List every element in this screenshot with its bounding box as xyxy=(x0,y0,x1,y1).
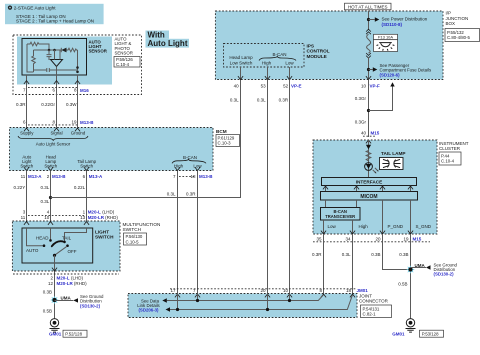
svg-text:10: 10 xyxy=(361,84,367,89)
note header box 2-STAGE Auto Light xyxy=(5,4,104,24)
sensor circuit: left rail wire xyxy=(27,44,34,72)
svg-text:35: 35 xyxy=(316,236,322,241)
node to passenger fuse details xyxy=(367,68,370,71)
brace under Supply Signal Ground xyxy=(18,136,88,140)
svg-text:SWITCH: SWITCH xyxy=(123,227,142,232)
micom ground wires xyxy=(383,200,411,234)
svg-text:0.3B: 0.3B xyxy=(43,289,52,294)
svg-text:0.3B: 0.3B xyxy=(371,252,380,257)
auto light & photo sensor outer dashed box xyxy=(13,35,142,95)
svg-text:UMA: UMA xyxy=(61,296,72,301)
junction node on head lamp wire xyxy=(49,196,52,199)
svg-text:0.22Gr: 0.22Gr xyxy=(41,102,55,107)
light switch top pin chevrons xyxy=(24,222,89,225)
IPS B-CAN Low long wire xyxy=(289,80,291,294)
svg-text:P.54/131: P.54/131 xyxy=(363,306,380,311)
brace over High Low (BCM) xyxy=(172,159,206,163)
svg-text:0.3W: 0.3W xyxy=(66,102,77,107)
node to power distribution xyxy=(367,18,370,21)
fuse F13 10A xyxy=(366,29,397,58)
wire supply from sensor xyxy=(26,75,28,128)
B-CAN TRANSCEIVER block xyxy=(321,208,361,221)
photodiode D1 xyxy=(60,48,62,52)
svg-text:M13-B: M13-B xyxy=(52,174,66,179)
svg-text:(LHD): (LHD) xyxy=(71,276,84,281)
wire 0.22Y auto light switch xyxy=(26,171,28,229)
svg-text:Low Switch: Low Switch xyxy=(230,60,253,65)
IPS bottom pin chevrons xyxy=(238,76,292,79)
transceiver output wires xyxy=(324,220,353,234)
svg-text:0.3R: 0.3R xyxy=(186,191,196,196)
connector M15 row top xyxy=(361,131,380,137)
BCM Tail Lamp Switch label xyxy=(77,159,96,169)
cluster top chevron xyxy=(366,140,371,143)
svg-text:(RHD): (RHD) xyxy=(105,215,118,220)
brace over High Low (IPS) xyxy=(259,57,296,61)
IPS label xyxy=(307,43,330,58)
wire B-CAN Low from BCM xyxy=(197,171,199,294)
svg-text:Auto Light Sensor: Auto Light Sensor xyxy=(36,142,71,147)
IPS head lamp low switch output wire xyxy=(240,67,242,80)
wire signal from sensor xyxy=(56,75,58,128)
capacitor C1 xyxy=(48,50,50,54)
svg-text:(RHD): (RHD) xyxy=(74,281,87,286)
svg-text:0.3L: 0.3L xyxy=(167,191,176,196)
op-amp U1 xyxy=(51,60,63,67)
svg-text:0.3L: 0.3L xyxy=(257,97,266,102)
switch wiper arm xyxy=(52,241,63,246)
IPS inner dashed box xyxy=(224,44,305,68)
svg-text:M13-B: M13-B xyxy=(199,174,213,179)
wire from junction to IPS pin 40 xyxy=(51,80,241,198)
sensor output wire xyxy=(56,67,58,85)
wire 0.3Gr to cluster xyxy=(368,80,370,138)
svg-text:M13-A: M13-A xyxy=(89,174,103,179)
junction box lower wire xyxy=(368,57,370,79)
svg-text:10: 10 xyxy=(283,288,289,293)
svg-text:C.10-3: C.10-3 xyxy=(218,141,232,146)
B-CAN bus line 1 xyxy=(167,295,324,301)
S_GND wire to ground xyxy=(410,234,412,318)
svg-text:40: 40 xyxy=(234,83,240,88)
svg-text:C.80-4/80-5: C.80-4/80-5 xyxy=(447,35,471,40)
diode in cluster xyxy=(366,145,371,149)
svg-text:SENSOR: SENSOR xyxy=(115,51,133,56)
svg-text:Supply: Supply xyxy=(20,131,34,136)
svg-text:(LHD): (LHD) xyxy=(102,209,115,214)
svg-text:Switch: Switch xyxy=(44,164,57,169)
svg-text:CLUSTER: CLUSTER xyxy=(439,146,461,151)
svg-text:GM01: GM01 xyxy=(49,331,62,336)
node dot xyxy=(76,71,79,74)
svg-text:AUTO: AUTO xyxy=(26,248,39,253)
light switch dashed blue box xyxy=(12,221,120,271)
svg-text:High: High xyxy=(359,224,369,229)
svg-text:High: High xyxy=(262,60,272,65)
tail lamp icon box xyxy=(380,158,404,170)
tail lamp LED indicator xyxy=(365,163,379,174)
svg-text:0.3L: 0.3L xyxy=(41,185,50,190)
svg-text:CONNECTOR: CONNECTOR xyxy=(359,299,389,304)
svg-text:HEAD: HEAD xyxy=(36,235,49,240)
svg-text:53: 53 xyxy=(261,83,267,88)
switch output wire xyxy=(54,255,56,318)
svg-text:40: 40 xyxy=(361,131,367,136)
resistor in cluster xyxy=(366,151,371,162)
connector VP-F row xyxy=(361,84,380,89)
data link connector row xyxy=(170,288,368,293)
junction box feed wire xyxy=(368,11,370,30)
node dot xyxy=(53,49,56,52)
svg-text:2-STAGE Auto Light: 2-STAGE Auto Light xyxy=(14,5,57,10)
svg-text:M20-LR: M20-LR xyxy=(57,281,74,286)
cluster Low wire down xyxy=(323,234,325,294)
switch HEAD contact wire xyxy=(50,228,52,239)
joint connector label xyxy=(359,293,392,317)
see data link details label xyxy=(137,298,160,312)
wire 0.22L tail lamp switch xyxy=(86,171,88,229)
cluster lamp feed wire xyxy=(368,140,370,178)
svg-text:STAGE 2 : Tail Lamp + Head Lam: STAGE 2 : Tail Lamp + Head Lamp ON xyxy=(16,19,94,24)
connector M15 row bottom xyxy=(313,236,430,242)
wire ground from sensor xyxy=(77,58,79,128)
BCM label xyxy=(216,129,240,147)
cluster bottom labels xyxy=(328,224,432,229)
resistor right in sensor xyxy=(67,48,78,52)
svg-text:11: 11 xyxy=(21,215,26,220)
BCM bottom connector row xyxy=(21,174,214,179)
wire B-CAN High from BCM xyxy=(177,171,179,294)
INTERFACE block xyxy=(322,178,417,186)
micom-transceiver wires xyxy=(326,200,357,208)
sensor label xyxy=(89,40,108,54)
light switch inner box xyxy=(22,228,93,263)
svg-text:Low: Low xyxy=(285,60,294,65)
switch TAIL contact wire xyxy=(65,228,87,241)
svg-text:0.5B: 0.5B xyxy=(398,282,407,287)
BCM box xyxy=(10,128,214,171)
svg-text:Head Lamp: Head Lamp xyxy=(229,55,253,60)
svg-text:C.10-5: C.10-5 xyxy=(126,239,140,244)
light switch label xyxy=(95,229,114,239)
svg-text:P.53/128: P.53/128 xyxy=(422,331,439,336)
svg-text:C.82-1: C.82-1 xyxy=(363,312,377,317)
interface-micom link wires xyxy=(326,186,411,192)
svg-text:M15: M15 xyxy=(371,131,380,136)
svg-text:0.22Y: 0.22Y xyxy=(14,185,26,190)
IP junction box label xyxy=(445,11,480,42)
svg-text:(SD206-3): (SD206-3) xyxy=(138,308,159,313)
IPS B-CAN Low wire xyxy=(289,67,291,80)
svg-text:M20-L: M20-L xyxy=(57,276,70,281)
svg-text:Ground: Ground xyxy=(71,131,86,136)
svg-text:0.3L: 0.3L xyxy=(41,199,50,204)
svg-text:34: 34 xyxy=(345,236,351,241)
IPS control module / IP junction box blue box xyxy=(215,11,443,80)
svg-text:M16: M16 xyxy=(80,88,89,93)
svg-text:M13-B: M13-B xyxy=(80,120,94,125)
svg-text:(SD130-2): (SD130-2) xyxy=(434,272,455,277)
wire 0.3L head lamp switch xyxy=(50,171,52,229)
svg-text:BOX: BOX xyxy=(446,21,456,26)
svg-text:17: 17 xyxy=(170,288,176,293)
see ground distribution left arrow xyxy=(55,300,74,302)
svg-text:INTERFACE: INTERFACE xyxy=(356,180,383,185)
svg-text:F13 10A: F13 10A xyxy=(378,35,393,40)
sensor mid rail wire xyxy=(34,49,62,51)
switch OFF contact xyxy=(66,244,69,247)
svg-text:Switch: Switch xyxy=(20,164,33,169)
svg-text:0.3Gr: 0.3Gr xyxy=(355,120,367,125)
svg-text:Low: Low xyxy=(328,224,337,229)
MICOM block xyxy=(321,192,418,201)
svg-text:MODULE: MODULE xyxy=(307,54,327,59)
svg-text:0.3R: 0.3R xyxy=(312,252,322,257)
svg-text:0.3B: 0.3B xyxy=(399,252,408,257)
svg-text:B-CAN: B-CAN xyxy=(183,155,197,160)
svg-text:20: 20 xyxy=(375,236,381,241)
switch pivot node xyxy=(53,254,56,257)
svg-text:(SD110-8): (SD110-8) xyxy=(382,22,403,27)
svg-text:VP-E: VP-E xyxy=(291,83,302,88)
svg-text:0.5B: 0.5B xyxy=(43,308,52,313)
IPS B-CAN High wire xyxy=(267,67,269,80)
photo sensor label xyxy=(114,37,140,68)
tail lamp indicator icon in junction box xyxy=(374,40,398,52)
svg-text:M15: M15 xyxy=(413,236,422,241)
svg-text:TRANSCEIVER: TRANSCEIVER xyxy=(325,214,355,219)
svg-text:M20-LR: M20-LR xyxy=(88,215,105,220)
IPS connector row VP-E xyxy=(234,83,302,88)
resistor vertical in sensor xyxy=(32,50,36,72)
node dot xyxy=(48,49,51,52)
ground GM01 right xyxy=(392,319,443,338)
svg-text:(SD130-2): (SD130-2) xyxy=(80,303,101,308)
svg-text:52: 52 xyxy=(283,83,289,88)
svg-text:18: 18 xyxy=(346,288,352,293)
svg-text:C.10-4: C.10-4 xyxy=(116,62,130,67)
head lamp low switch label xyxy=(229,55,253,65)
see ground distribution right arrow xyxy=(411,267,427,269)
svg-text:Auto Light: Auto Light xyxy=(148,39,188,48)
sensor inner solid box xyxy=(22,39,87,76)
instrument cluster box xyxy=(313,140,437,234)
ground splice UMA left xyxy=(50,296,71,305)
connector M20 lower rows xyxy=(13,274,119,286)
svg-text:0.3L: 0.3L xyxy=(230,97,239,102)
svg-text:0.3Gr: 0.3Gr xyxy=(355,96,367,101)
BCM bottom pin chevrons xyxy=(24,167,200,170)
svg-text:TAIL LAMP: TAIL LAMP xyxy=(381,151,406,156)
svg-text:P_GND: P_GND xyxy=(388,224,404,229)
svg-text:Low: Low xyxy=(193,164,202,169)
feedback capacitor C2 xyxy=(34,68,78,72)
resistor horizontal in sensor xyxy=(27,42,49,50)
svg-text:20: 20 xyxy=(260,288,266,293)
IPS B-CAN High long wire xyxy=(267,80,269,294)
light switch bottom chevron xyxy=(52,268,57,271)
connector M16 row xyxy=(23,88,89,93)
multifunction switch label xyxy=(123,222,161,245)
BCM Head Lamp Switch label xyxy=(44,155,57,169)
svg-text:P.52/128: P.52/128 xyxy=(65,331,82,336)
data link entry chevrons xyxy=(175,294,355,297)
BCM Auto Light Switch label xyxy=(20,155,33,169)
svg-text:Switch: Switch xyxy=(80,164,93,169)
ground splice UMA right xyxy=(406,263,425,274)
svg-text:B-CAN: B-CAN xyxy=(272,52,286,57)
svg-text:C.10-4: C.10-4 xyxy=(441,159,455,164)
svg-text:M13-A: M13-A xyxy=(28,174,42,179)
svg-text:S_GND: S_GND xyxy=(416,224,432,229)
cluster bottom chevrons xyxy=(321,231,413,234)
svg-text:19: 19 xyxy=(403,236,409,241)
BCM top pin chevrons xyxy=(24,128,80,131)
switch AUTO contact wire xyxy=(27,228,43,246)
svg-text:OFF: OFF xyxy=(68,249,77,254)
svg-text:12: 12 xyxy=(48,281,54,286)
connector M20 upper rows xyxy=(21,209,119,219)
svg-text:BCM: BCM xyxy=(216,129,227,134)
svg-text:TAIL: TAIL xyxy=(62,235,72,240)
svg-text:SWITCH: SWITCH xyxy=(95,235,114,240)
svg-text:0.3R: 0.3R xyxy=(16,102,26,107)
svg-text:MICOM: MICOM xyxy=(360,194,377,200)
svg-text:0.22L: 0.22L xyxy=(74,185,86,190)
node branch up arrow xyxy=(367,109,370,112)
junction box bottom chevron xyxy=(366,76,371,79)
cluster High wire down xyxy=(352,234,354,294)
connector M13-B row xyxy=(23,120,94,126)
svg-text:HOT AT ALL TIMES: HOT AT ALL TIMES xyxy=(348,4,388,9)
svg-text:VP-F: VP-F xyxy=(370,84,381,89)
svg-text:0.3L: 0.3L xyxy=(342,252,351,257)
node dot xyxy=(76,66,79,69)
cluster wire labels xyxy=(312,252,409,257)
P_GND wire to splice xyxy=(383,234,411,270)
svg-text:0.3R: 0.3R xyxy=(279,97,289,102)
svg-text:(SD120-6): (SD120-6) xyxy=(380,72,401,77)
bus junction nodes xyxy=(196,299,199,302)
svg-text:M20-L: M20-L xyxy=(88,209,101,214)
data link blue box xyxy=(128,294,357,318)
svg-text:SENSOR: SENSOR xyxy=(89,49,108,54)
right rail wire xyxy=(77,50,79,70)
HOT AT ALL TIMES tag xyxy=(345,3,392,10)
pin chevrons sensor exits xyxy=(24,81,29,84)
svg-text:11: 11 xyxy=(21,174,26,179)
svg-text:JM01: JM01 xyxy=(357,288,369,293)
svg-text:LIGHT: LIGHT xyxy=(95,229,109,234)
cluster label xyxy=(439,141,469,165)
With Auto Light caption xyxy=(146,30,190,48)
svg-text:Signal: Signal xyxy=(50,131,62,136)
ground GM01 left xyxy=(49,319,87,338)
bus drop wires xyxy=(178,294,290,310)
sensor blue box xyxy=(17,37,112,85)
svg-text:GM01: GM01 xyxy=(392,331,405,336)
svg-text:19: 19 xyxy=(71,120,77,125)
B-CAN bus line 2 xyxy=(170,295,353,310)
